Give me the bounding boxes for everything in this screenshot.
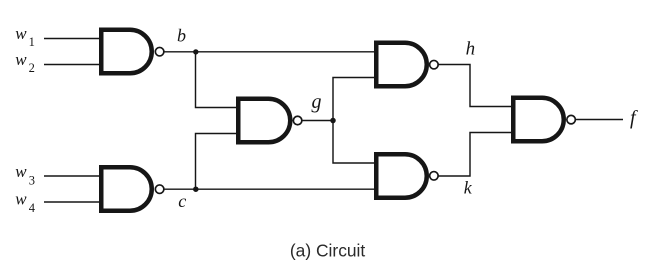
- svg-text:h: h: [466, 39, 476, 60]
- svg-text:w: w: [15, 50, 27, 69]
- svg-text:(a) Circuit: (a) Circuit: [290, 241, 366, 261]
- svg-text:b: b: [177, 26, 186, 46]
- svg-text:2: 2: [29, 61, 35, 75]
- svg-text:1: 1: [29, 35, 35, 49]
- svg-text:g: g: [312, 91, 322, 113]
- svg-text:c: c: [178, 191, 186, 211]
- svg-text:w: w: [15, 190, 27, 209]
- svg-text:w: w: [15, 24, 27, 43]
- svg-text:4: 4: [29, 201, 36, 215]
- svg-text:k: k: [464, 177, 473, 197]
- svg-text:3: 3: [29, 173, 35, 187]
- svg-text:w: w: [15, 162, 27, 181]
